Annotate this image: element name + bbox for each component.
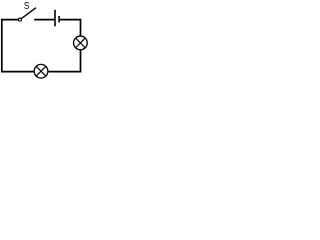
switch S pivot terminal [18,18,21,21]
svg-text:S: S [24,0,29,12]
wire: lamp L1 down to bottom-right corner and left to lamp L2 [48,50,81,72]
lamp L1 circle [74,36,88,50]
lamp L2 cross [36,66,46,76]
wire: switch to battery positive plate [34,19,54,21]
lamp L1 cross [76,38,86,48]
battery negative plate (short) [58,16,60,22]
battery positive plate (long) [54,10,56,27]
lamp L2 circle [34,64,48,78]
wire: battery to top-right corner and down to lamp L1 [60,20,81,37]
switch S blade (open) [21,8,36,19]
wire: switch pivot left, down left side, along bottom to lamp L2 [2,20,35,72]
